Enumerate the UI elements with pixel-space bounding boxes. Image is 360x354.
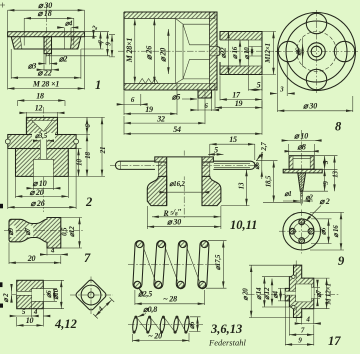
dim ~20 xyxy=(133,333,190,342)
part 9 centerline xyxy=(301,130,303,207)
dim 20 xyxy=(9,242,61,264)
stem tip xyxy=(301,191,303,195)
dim phi18 xyxy=(24,18,74,45)
part 17 phi7 hole xyxy=(312,287,314,298)
dim phi22 xyxy=(11,49,81,79)
knob lobe W xyxy=(278,41,298,61)
svg-text:6: 6 xyxy=(131,96,135,104)
svg-text:9: 9 xyxy=(322,181,330,185)
housing thread relief zigzag xyxy=(139,79,158,84)
svg-text:7: 7 xyxy=(84,251,91,265)
part 12 circles xyxy=(81,285,101,305)
svg-text:M 28×1: M 28×1 xyxy=(125,38,134,64)
part 9 circle centerlines xyxy=(279,210,325,254)
svg-text:⌀4: ⌀4 xyxy=(271,290,279,298)
dim 5 xyxy=(12,315,17,317)
dim 17 xyxy=(220,99,262,101)
dim phi4 xyxy=(278,288,285,301)
svg-text:32: 32 xyxy=(156,115,165,124)
part 1 right wall xyxy=(70,37,81,49)
housing small bore through wall xyxy=(210,46,218,56)
dim phi2 tip xyxy=(303,200,313,202)
svg-text:4: 4 xyxy=(33,308,38,316)
part 17 centerlines xyxy=(248,261,340,323)
part 1 center stem xyxy=(44,37,52,54)
dim 18 right xyxy=(69,175,105,177)
dim 7 (right) xyxy=(81,48,104,50)
part 17 flange notch bottom xyxy=(292,305,295,308)
svg-text:M 12×1: M 12×1 xyxy=(325,283,333,305)
svg-text:4: 4 xyxy=(305,315,310,323)
knob hub circles xyxy=(308,43,325,60)
dim phi16 circle xyxy=(310,212,344,250)
right pin xyxy=(213,161,255,169)
dim M28x1 internal xyxy=(134,19,136,84)
dim 9 xyxy=(285,344,314,346)
svg-text:3,6,13: 3,6,13 xyxy=(210,322,242,336)
cup bore xyxy=(167,176,202,205)
dim 9 (right) xyxy=(50,55,110,57)
flange xyxy=(283,169,322,173)
svg-text:6: 6 xyxy=(84,124,92,128)
dim 19 bottom-left xyxy=(124,113,177,115)
svg-text:3: 3 xyxy=(322,160,330,165)
svg-text:⌀2: ⌀2 xyxy=(305,193,313,201)
svg-text:⌀7: ⌀7 xyxy=(24,227,32,235)
part 2 bore phi3.5 xyxy=(40,132,46,160)
svg-text:4: 4 xyxy=(50,246,55,254)
part 17 flange notch top xyxy=(292,275,295,278)
part 2 lower body xyxy=(16,149,69,177)
svg-text:⌀ 22: ⌀ 22 xyxy=(37,68,51,77)
part 4 centerline xyxy=(12,294,47,296)
svg-text:⌀ 30: ⌀ 30 xyxy=(303,102,317,111)
scan edge mark 2 xyxy=(0,282,3,287)
housing centerline xyxy=(118,50,280,52)
svg-text:19: 19 xyxy=(145,105,153,114)
svg-text:9: 9 xyxy=(338,254,345,268)
svg-text:M 28 ×1: M 28 ×1 xyxy=(32,80,59,89)
svg-text:⌀3,5: ⌀3,5 xyxy=(35,132,48,140)
svg-text:⌀ 10: ⌀ 10 xyxy=(294,132,308,141)
dim phi20 xyxy=(249,265,293,317)
svg-text:⌀6: ⌀6 xyxy=(319,227,327,235)
svg-text:~ 20: ~ 20 xyxy=(148,331,162,340)
svg-text:19: 19 xyxy=(235,99,243,108)
part 9 hole W xyxy=(290,228,296,234)
dim 6 under lug xyxy=(192,109,197,111)
svg-text:18: 18 xyxy=(84,152,92,159)
svg-text:2,7: 2,7 xyxy=(260,142,268,152)
svg-text:4,12: 4,12 xyxy=(54,317,77,331)
svg-text:⌀12: ⌀12 xyxy=(68,226,76,237)
svg-text:18: 18 xyxy=(36,92,44,101)
dim 3 head xyxy=(315,156,338,170)
head outline xyxy=(289,156,314,170)
part 4 bore phi6 xyxy=(32,289,44,302)
svg-text:10: 10 xyxy=(76,159,84,166)
dim phi3 xyxy=(37,69,44,71)
part 9 hole E xyxy=(308,228,314,234)
part 17 flange and body section xyxy=(289,265,313,317)
dim phi6 pin xyxy=(261,152,263,179)
part 1 centerline xyxy=(46,4,48,58)
part 2 centerline xyxy=(43,107,45,212)
svg-text:⌀ 18: ⌀ 18 xyxy=(37,9,51,18)
svg-text:⌀10: ⌀10 xyxy=(52,288,60,299)
cup mouth opening xyxy=(167,156,202,177)
housing right wall xyxy=(210,12,218,90)
dim phi26 xyxy=(8,149,76,209)
svg-text:⌀4: ⌀4 xyxy=(65,20,73,28)
housing top band xyxy=(124,12,215,19)
left pin xyxy=(115,161,155,169)
dim 12 top xyxy=(21,112,26,114)
svg-text:⌀9: ⌀9 xyxy=(7,227,15,235)
dim 10 xyxy=(17,317,44,327)
svg-text:5: 5 xyxy=(257,81,261,90)
svg-text:⌀6: ⌀6 xyxy=(295,48,303,56)
svg-text:Federstahl: Federstahl xyxy=(208,338,246,348)
dim phi6 knob xyxy=(302,38,304,67)
svg-text:3: 3 xyxy=(279,86,284,94)
dim 4 diamond xyxy=(95,300,112,317)
dim 2 (right) xyxy=(85,32,110,37)
big spring wire sections bottom xyxy=(134,281,206,288)
dim phi30 xyxy=(8,10,85,31)
part 9 middle circle xyxy=(289,219,314,244)
dim phi10 xyxy=(44,280,64,308)
dim 10 right xyxy=(69,148,82,150)
svg-text:⌀2,5: ⌀2,5 xyxy=(138,290,152,299)
stem xyxy=(298,173,306,191)
part 9 hole N xyxy=(299,219,305,225)
dim phi2 leader xyxy=(46,56,50,65)
svg-text:R 5/8″: R 5/8″ xyxy=(162,207,181,218)
part 12 diamond end view xyxy=(70,277,113,315)
knob outer circle xyxy=(278,13,356,91)
part 1 stem tip xyxy=(46,54,50,56)
dim phi16 xyxy=(239,40,241,66)
dim phi6 circle xyxy=(311,219,332,244)
left cut-off dim line xyxy=(111,35,113,57)
dim phi6 xyxy=(44,289,57,302)
cup top rim xyxy=(155,157,214,162)
svg-text:⌀ 10: ⌀ 10 xyxy=(243,47,251,60)
svg-text:7: 7 xyxy=(301,327,305,335)
small spring coils xyxy=(132,317,190,333)
dim phi2 xyxy=(11,286,13,303)
svg-text:8: 8 xyxy=(335,120,342,134)
svg-text:~ 28: ~ 28 xyxy=(163,295,177,304)
dim phi14 xyxy=(262,277,289,307)
dim phi30 knob xyxy=(352,96,354,112)
dim ~28 xyxy=(135,290,205,305)
svg-text:10,11: 10,11 xyxy=(230,218,257,232)
dim phi10 below xyxy=(34,177,54,190)
dim 19 right xyxy=(215,107,262,109)
svg-text:⌀8: ⌀8 xyxy=(297,142,306,151)
dim 6 bottom-left xyxy=(119,103,124,105)
big spring coil 1 xyxy=(133,240,209,289)
svg-text:17: 17 xyxy=(328,334,341,348)
dim phi30 cup xyxy=(147,206,221,229)
dim R 5/8 line xyxy=(152,216,221,218)
section outline xyxy=(220,32,262,75)
dim phi7 xyxy=(27,226,33,238)
dim phi9 xyxy=(10,226,16,238)
svg-text:⌀ 26: ⌀ 26 xyxy=(30,199,44,208)
registration cross top-left xyxy=(0,3,5,8)
part 17 left stub xyxy=(285,288,289,301)
scan edge mark 3 xyxy=(0,304,3,308)
dim 5 right xyxy=(249,89,263,91)
svg-text:15: 15 xyxy=(229,135,237,144)
dim phi7 xyxy=(314,281,320,306)
housing cavity: cone chamfers and hex socket xyxy=(176,19,210,84)
svg-text:18,5: 18,5 xyxy=(265,175,273,187)
svg-text:⌀1: ⌀1 xyxy=(284,190,291,198)
part 2 countersink V xyxy=(26,121,57,132)
small spring back coils xyxy=(138,319,186,331)
cup left flare xyxy=(147,176,166,205)
part 1 left wall xyxy=(11,37,22,49)
dim 4 xyxy=(44,315,49,317)
dim phi20 xyxy=(16,177,69,198)
part 2 bore phi10 xyxy=(34,159,54,176)
part 1 body outline xyxy=(11,37,81,49)
part 9 outer circle xyxy=(283,212,321,250)
dim phi10 head xyxy=(289,144,315,155)
dim M28x1 xyxy=(8,37,85,90)
dim M12x1 xyxy=(314,278,329,309)
big spring centerline xyxy=(128,264,216,266)
svg-text:⌀7: ⌀7 xyxy=(315,290,323,298)
dim 18 top xyxy=(18,100,66,102)
svg-text:1: 1 xyxy=(95,78,101,92)
part 2 top tube xyxy=(26,117,57,134)
svg-text:⌀ 2: ⌀ 2 xyxy=(319,197,329,206)
cup left wall xyxy=(158,162,166,176)
part 1 flange section xyxy=(8,32,85,37)
svg-text:12: 12 xyxy=(35,104,43,113)
knob dashed circle xyxy=(297,32,337,72)
dim 13 total xyxy=(334,156,336,192)
svg-text:21: 21 xyxy=(99,147,107,155)
part 17 phi2 hole xyxy=(285,291,295,295)
svg-text:⌀ 10: ⌀ 10 xyxy=(32,179,46,188)
knob lobe S xyxy=(306,69,326,89)
dim M12x1 xyxy=(262,32,276,75)
small spring wire dots xyxy=(133,316,190,334)
svg-text:2: 2 xyxy=(85,195,92,209)
scan edge mark 1 xyxy=(0,204,3,209)
housing outline xyxy=(124,12,217,90)
dim 3 knob xyxy=(278,55,288,112)
knob centerlines xyxy=(275,10,358,93)
dim phi6 small spring xyxy=(189,317,201,332)
dim phi4 xyxy=(58,27,64,29)
svg-text:M12×1: M12×1 xyxy=(264,43,272,64)
dim 4 flange xyxy=(42,254,47,256)
part 2 flange xyxy=(8,135,76,149)
part 1 flange hole phi4 xyxy=(65,37,72,49)
knob lobe E xyxy=(334,41,354,61)
dim 18,5 xyxy=(256,161,300,203)
big spring back coils xyxy=(144,248,200,282)
part 9 hole S xyxy=(299,238,305,244)
part 4 bore phi2 xyxy=(17,291,32,295)
svg-text:9: 9 xyxy=(298,336,302,344)
small spring centerline xyxy=(128,324,203,326)
dim 15 right pin xyxy=(210,144,255,160)
knob lobed circle xyxy=(286,21,347,82)
housing bore lines xyxy=(124,19,176,84)
svg-text:⌀22: ⌀22 xyxy=(220,47,228,58)
part 4 body xyxy=(17,280,44,308)
part 10,11 centerline vertical xyxy=(183,151,185,220)
part 10,11 centerline horizontal xyxy=(110,164,260,166)
dim phi26 internal xyxy=(153,19,155,84)
dim 13 right xyxy=(221,205,250,207)
svg-text:⌀2: ⌀2 xyxy=(59,55,68,64)
svg-text:⌀ 2: ⌀ 2 xyxy=(2,293,10,303)
part 9 bolt circle xyxy=(294,223,310,239)
svg-text:20: 20 xyxy=(27,254,36,263)
svg-text:5: 5 xyxy=(214,145,218,154)
svg-text:⌀ 26: ⌀ 26 xyxy=(144,46,153,60)
knob lobe N xyxy=(306,13,326,33)
svg-text:2: 2 xyxy=(90,24,99,31)
svg-text:⌀ 16: ⌀ 16 xyxy=(231,46,239,59)
cup right flare xyxy=(202,176,221,205)
dim 5 right wall xyxy=(208,153,224,155)
section bottom band xyxy=(220,66,262,75)
svg-text:⌀3: ⌀3 xyxy=(28,61,37,70)
dim 54 xyxy=(124,133,262,135)
svg-text:⌀ 20: ⌀ 20 xyxy=(158,48,167,62)
svg-text:9: 9 xyxy=(105,42,113,46)
part 7 body xyxy=(9,218,61,249)
dim phi20 internal xyxy=(167,29,169,74)
svg-text:⌀ 12: ⌀ 12 xyxy=(263,287,271,300)
svg-text:⌀17,5: ⌀17,5 xyxy=(214,254,222,270)
dim phi17,5 xyxy=(206,241,227,289)
dim 7 xyxy=(289,334,313,336)
svg-text:⌀ 16: ⌀ 16 xyxy=(332,225,340,238)
svg-text:⌀0,8: ⌀0,8 xyxy=(143,305,157,314)
dim 9 stem xyxy=(303,190,328,192)
svg-text:13: 13 xyxy=(237,182,245,189)
svg-text:⌀6: ⌀6 xyxy=(188,321,196,329)
svg-text:⌀5: ⌀5 xyxy=(172,93,181,102)
svg-text:54: 54 xyxy=(173,125,181,134)
dim 6 right xyxy=(58,117,105,134)
neck xyxy=(217,46,220,56)
svg-text:⌀ 20: ⌀ 20 xyxy=(29,188,43,197)
cup right wall xyxy=(202,162,210,176)
big spring wire sections top xyxy=(136,241,208,248)
svg-text:⌀16,2: ⌀16,2 xyxy=(169,180,185,188)
section bore lines xyxy=(220,40,262,66)
part 7 centerline xyxy=(4,230,84,232)
svg-text:⌀ 20: ⌀ 20 xyxy=(242,288,250,301)
dim phi10 xyxy=(251,47,253,57)
part 17 counterbore xyxy=(296,284,312,302)
dim 21 right xyxy=(101,117,103,176)
part 2 text gap xyxy=(32,133,55,140)
dim phi12 xyxy=(61,218,82,249)
dim phi22 xyxy=(228,32,230,75)
housing bottom lug xyxy=(198,90,212,98)
dim 32 xyxy=(124,122,205,124)
dim phi8 head xyxy=(286,150,292,152)
svg-text:⌀6: ⌀6 xyxy=(253,162,261,170)
svg-text:10: 10 xyxy=(26,316,34,325)
svg-text:13: 13 xyxy=(332,171,340,178)
svg-text:⌀ 30: ⌀ 30 xyxy=(167,218,181,227)
dim 4 xyxy=(298,323,302,325)
svg-text:4: 4 xyxy=(96,305,105,314)
dim phi12 xyxy=(271,279,273,306)
housing bottom band xyxy=(124,84,215,91)
section top band xyxy=(220,32,262,41)
part 2 flange notches xyxy=(5,139,10,144)
